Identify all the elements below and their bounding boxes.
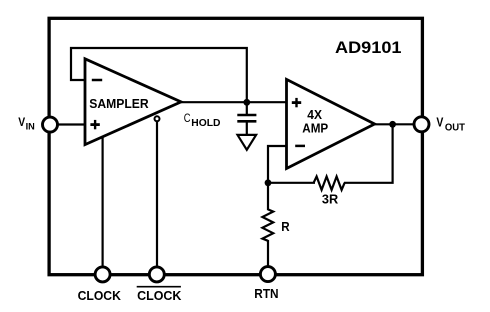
wire CHOLD node down to capacitor [246, 102, 248, 114]
ground symbol [238, 135, 257, 150]
svg-text:SAMPLER: SAMPLER [89, 96, 148, 111]
svg-text:C: C [184, 111, 191, 125]
svg-text:CLOCK: CLOCK [137, 288, 182, 303]
junction dot CHOLD node [243, 99, 250, 106]
amp - pin mark [295, 145, 305, 148]
sampler + pin mark [90, 123, 99, 126]
capacitor CHOLD plates [237, 115, 256, 121]
resistor 3R [314, 177, 345, 190]
wire output node down to 3R [344, 124, 393, 183]
junction dot R / 3R node [265, 179, 272, 186]
sampler - pin mark [92, 79, 102, 82]
svg-text:IN: IN [26, 122, 35, 133]
svg-text:3R: 3R [322, 191, 339, 206]
junction dot amp output node [389, 121, 396, 128]
wire node to 3R left end [268, 182, 315, 184]
op-amp U1 SAMPLER [85, 59, 181, 145]
clock inverter bubble [155, 116, 160, 121]
wire R to RTN terminal [267, 240, 269, 274]
svg-text:CLOCK: CLOCK [78, 288, 122, 303]
svg-text:V: V [436, 116, 443, 130]
svg-text:AMP: AMP [302, 120, 328, 135]
wire 4X amp output to VOUT [373, 123, 422, 125]
op-amp U2 4X AMP [287, 79, 375, 168]
svg-text:OUT: OUT [445, 123, 465, 134]
resistor R [262, 209, 273, 240]
overline for inverted CLOCK [137, 286, 181, 288]
wire sampler feedback loop to - input [71, 48, 247, 102]
terminal RTN [260, 267, 275, 282]
svg-text:AD9101: AD9101 [335, 39, 402, 57]
svg-text:HOLD: HOLD [191, 118, 220, 129]
terminal VOUT [414, 117, 429, 132]
chip outline [49, 18, 422, 274]
wire sampler output to 4X amp + input [180, 101, 287, 103]
svg-text:RTN: RTN [254, 286, 278, 301]
svg-text:R: R [281, 220, 289, 234]
amp + pin mark [292, 101, 301, 104]
wire VIN to sampler + input [50, 123, 86, 125]
wire capacitor to ground [246, 122, 248, 136]
wire node down to R [267, 183, 269, 210]
wire 4X amp - input [268, 146, 287, 183]
terminal CLOCK inverted [149, 267, 164, 282]
terminal VIN [43, 117, 58, 132]
wire clock input 2 (inverted) [156, 121, 158, 274]
terminal CLOCK [95, 267, 110, 282]
wire clock input 1 [101, 130, 103, 274]
